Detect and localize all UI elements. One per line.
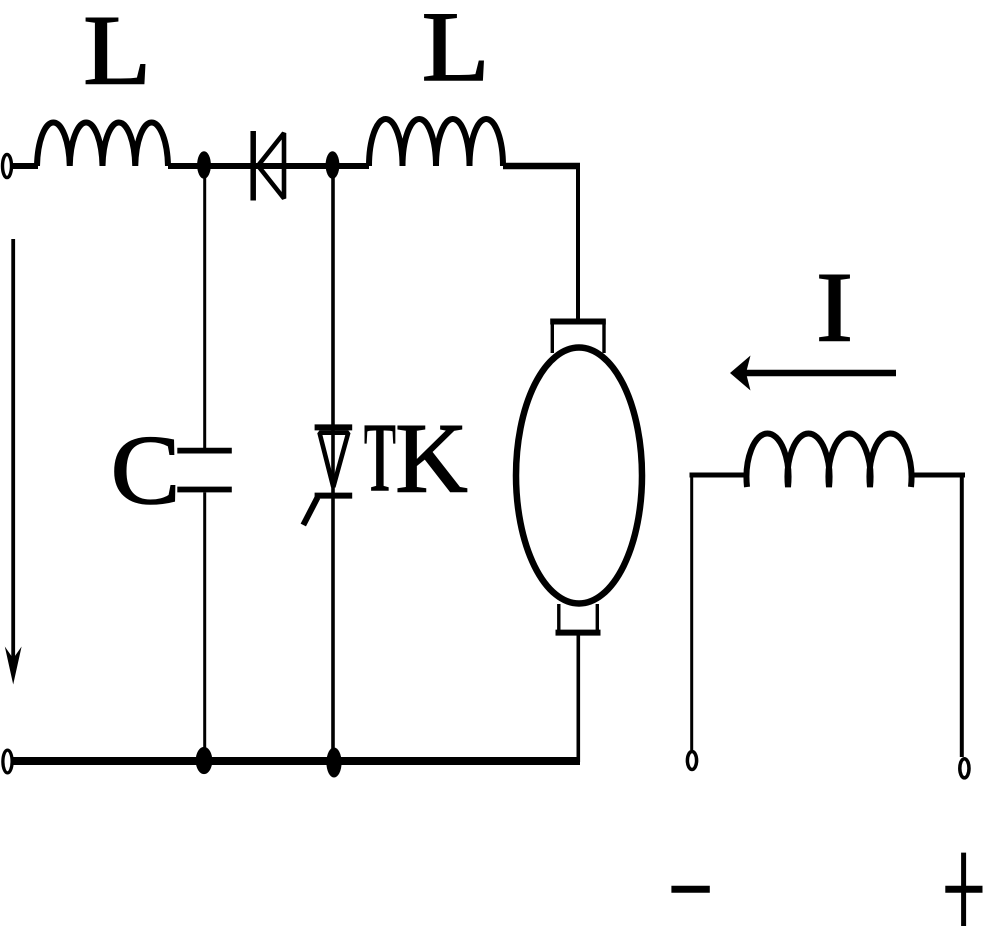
current arrow I (pointing left) (746, 370, 896, 377)
right circuit: left vertical wire (690, 473, 693, 751)
plus sign horizontal (945, 886, 982, 893)
thyristor cathode bar (315, 493, 353, 499)
svg-text:T: T (364, 402, 396, 513)
inductor L1 (37, 123, 168, 166)
wire L2 to corner (503, 163, 580, 170)
svg-text:L: L (422, 0, 490, 102)
svg-text:C: C (111, 414, 181, 524)
thyristor gate lead (303, 498, 317, 526)
diode triangle (258, 133, 284, 199)
node D (bottom right junction) (326, 748, 341, 778)
terminal right-circuit right (960, 759, 969, 778)
motor armature ellipse M (516, 348, 642, 604)
wire node B down to thyristor (331, 165, 335, 495)
right circuit: wire top-left horizontal (690, 473, 749, 478)
diode cathode bar (250, 131, 256, 201)
motor bottom brush (559, 604, 598, 633)
wire node A down to capacitor (203, 165, 206, 448)
right circuit: wire top-right horizontal (910, 473, 965, 478)
wire corner down to motor (576, 163, 580, 320)
terminal right-circuit left (687, 752, 696, 770)
svg-text:L: L (83, 0, 151, 105)
thyristor triangle (320, 433, 349, 487)
wire L1 to L2 through diode (168, 163, 369, 169)
minus sign (671, 886, 709, 893)
current arrow down (left side) (11, 239, 15, 662)
capacitor C bottom plate (177, 487, 232, 493)
thyristor anode bar (315, 424, 353, 430)
wire thyristor down to bottom wire (331, 496, 335, 761)
node C (bottom left junction) (196, 747, 213, 774)
wire top-left to L1 (12, 163, 39, 169)
wire capacitor down to bottom wire (203, 492, 206, 761)
inductor L2 (369, 119, 503, 166)
motor top brush (552, 322, 604, 354)
node B (top right junction) (326, 151, 340, 179)
right circuit: right vertical wire (960, 473, 964, 758)
wire motor to bottom (576, 633, 580, 762)
terminal top-left (3, 154, 12, 177)
svg-text:I: I (816, 252, 853, 363)
svg-text:K: K (395, 402, 467, 513)
capacitor C top plate (177, 448, 232, 454)
terminal bottom-left (3, 750, 12, 773)
bottom wire (12, 757, 580, 765)
inductor right (field coil) (747, 433, 912, 487)
node A (top left junction) (197, 151, 211, 179)
plus sign vertical (961, 853, 966, 926)
